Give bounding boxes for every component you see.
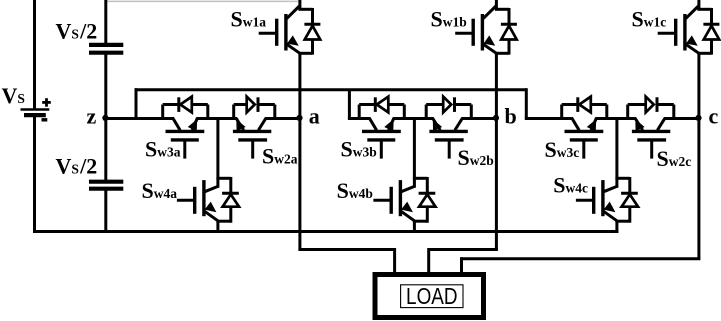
diode Dw4c <box>615 177 638 223</box>
IGBT Sw2c <box>632 118 670 159</box>
label Sw4b <box>337 178 373 203</box>
wire z bus drop to phase b <box>348 90 351 119</box>
wire Sw2c to node c <box>664 117 701 120</box>
label Sw3c <box>545 137 580 162</box>
wire negative rail <box>33 230 618 233</box>
wire z bus drop to phase c <box>525 88 528 118</box>
node a <box>296 104 319 129</box>
wire C2 to negative rail <box>104 189 107 233</box>
label Sw1a <box>231 6 267 31</box>
svg-text:LOAD: LOAD <box>406 283 458 309</box>
wire +rail stub phase c <box>697 0 700 10</box>
wire midpoint down to Sw4a <box>216 119 219 188</box>
IGBT Sw4c <box>576 180 617 221</box>
diode Dw3a <box>163 97 208 120</box>
load box <box>375 275 484 318</box>
wire Sw2a to node a <box>265 117 302 120</box>
label Sw2a <box>262 144 298 169</box>
diode Dw1a <box>298 8 320 55</box>
wire node c to load <box>462 119 701 275</box>
label Sw3a <box>145 137 181 162</box>
wire node b to load <box>429 119 498 275</box>
wire +rail stub phase b <box>495 0 498 10</box>
capacitor C1 VS/2 <box>89 45 123 53</box>
label VS <box>2 83 25 108</box>
wire z to Sw3a <box>105 117 175 120</box>
wire z bus left drop <box>135 88 138 118</box>
diode Dw4a <box>216 177 239 223</box>
wire midpoint down to Sw4c <box>615 119 618 188</box>
label VS/2 upper <box>56 19 98 44</box>
diode Dw3b <box>359 97 404 120</box>
wire Sw1b emitter to node b <box>495 53 498 118</box>
wire z bus horizontal <box>135 88 527 91</box>
diode Dw1c <box>697 8 719 55</box>
wire z feed to Sw3b <box>348 117 371 120</box>
label Sw3b <box>341 137 377 162</box>
wire Sw3b to Sw2b (midpoint segment) <box>393 117 434 120</box>
IGBT Sw2a <box>233 118 271 159</box>
IGBT Sw1c <box>658 6 699 54</box>
IGBT Sw1b <box>455 6 496 54</box>
wire Sw1c emitter to node c <box>697 53 700 118</box>
wire top rail (faint, clipped) <box>107 0 299 2</box>
wire battery bottom lead <box>33 117 36 233</box>
diode Dw2a <box>234 97 275 120</box>
node b <box>493 104 517 129</box>
label Sw2c <box>657 146 692 171</box>
wire dc-link top <box>104 0 107 45</box>
wire C1 to node z <box>104 53 107 119</box>
svg-text:c: c <box>709 104 719 129</box>
diode Dw1b <box>495 8 517 55</box>
node c <box>695 104 718 129</box>
IGBT Sw4b <box>373 180 414 221</box>
svg-text:a: a <box>309 104 320 129</box>
capacitor C2 VS/2 <box>89 182 123 189</box>
diode Dw3c <box>562 97 607 120</box>
wire z feed to Sw3c <box>525 117 573 120</box>
label Sw4a <box>142 178 178 203</box>
IGBT Sw2b <box>429 118 467 159</box>
diode Dw4b <box>413 177 436 223</box>
diode Dw2c <box>628 97 674 120</box>
diode Dw2b <box>426 97 471 120</box>
wire +rail stub phase a <box>298 0 301 10</box>
node z <box>87 104 109 129</box>
label Sw2b <box>458 145 494 170</box>
wire node z to C2 <box>104 119 107 182</box>
wire Sw4c emitter to negative rail <box>615 220 618 233</box>
IGBT Sw1a <box>259 6 300 54</box>
label Sw1b <box>431 7 467 32</box>
label Sw4c <box>553 172 588 197</box>
wire Sw3a to Sw2a (midpoint segment) <box>196 117 237 120</box>
svg-text:z: z <box>87 104 97 129</box>
wire Sw3c to Sw2c (midpoint segment) <box>595 117 636 120</box>
battery VS <box>21 98 51 120</box>
wire node a to load <box>298 119 394 275</box>
label VS/2 lower <box>56 154 98 179</box>
wire midpoint down to Sw4b <box>413 119 416 188</box>
wire Sw4a emitter to negative rail <box>216 220 219 233</box>
IGBT Sw3b <box>362 118 401 159</box>
wire Sw1a emitter to node a <box>298 53 301 118</box>
IGBT Sw3a <box>166 118 205 159</box>
wire Sw4b emitter to negative rail <box>413 220 416 233</box>
svg-text:b: b <box>505 104 517 129</box>
wire Sw2b to node b <box>461 117 498 120</box>
IGBT Sw4a <box>177 180 218 221</box>
IGBT Sw3c <box>565 118 604 159</box>
wire battery top lead <box>33 0 36 109</box>
label Sw1c <box>632 7 667 32</box>
